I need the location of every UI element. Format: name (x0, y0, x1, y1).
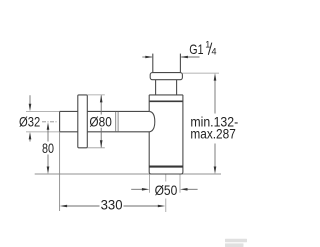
top flange (nut) (150, 73, 182, 80)
pipe joint seam double line (116, 112, 118, 132)
wall flange Ø80 (78, 95, 88, 148)
extension line from flange top to min/max dimension (182, 72, 219, 74)
svg-text:1: 1 (205, 40, 210, 50)
dimension G1 1/4 arrows (142, 56, 199, 58)
Ø80 dimension line and arrows (100, 95, 102, 147)
Ø50 dimension arrows (outside) (131, 188, 197, 190)
body top rim (149, 95, 183, 101)
bottom reference extension line (35, 173, 221, 175)
inlet pipe rounded end inside body (149, 111, 155, 131)
330 dimension line and arrows (66, 205, 159, 207)
svg-text:G1: G1 (189, 42, 203, 57)
svg-text:80: 80 (42, 141, 54, 156)
svg-text:Ø80: Ø80 (89, 114, 112, 129)
Ø80 extension lines (87, 95, 105, 148)
svg-text:Ø32: Ø32 (19, 114, 40, 129)
min/max dimension line and arrows (214, 80, 216, 168)
Ø50 extension lines (149, 175, 180, 193)
wall line / 330 left extension (59, 132, 61, 211)
watermark bottom right (225, 239, 247, 247)
trap body (bottle) (149, 95, 183, 174)
inlet axis centerline (dash-dot) for 80 dimension (42, 121, 57, 123)
Ø32 dimension line and arrows (outside) (29, 95, 31, 141)
80 dimension line and arrows (47, 129, 49, 168)
svg-text:max.287: max.287 (190, 126, 235, 141)
horizontal inlet pipe (60, 111, 150, 131)
330 right extension line (outlet axis) (165, 175, 167, 213)
G1 1/4 threaded pipe top (153, 54, 181, 73)
inlet pipe wall-end cap (59, 111, 61, 131)
Ø32 extension lines (26, 111, 60, 131)
svg-text:330: 330 (101, 198, 123, 213)
label G1 1/4 (189, 40, 216, 57)
svg-text:Ø50: Ø50 (155, 183, 178, 198)
body bottom cap joint lines (149, 166, 183, 168)
neck between flange and body (156, 80, 177, 95)
svg-text:4: 4 (212, 47, 217, 57)
